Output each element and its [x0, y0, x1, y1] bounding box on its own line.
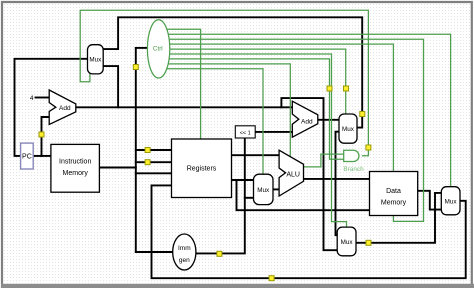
mux M3 ALU result / PC+4	[337, 227, 356, 256]
svg-text:Instruction: Instruction	[59, 158, 91, 165]
ALU	[279, 150, 303, 196]
mux M4 ALU source	[254, 174, 274, 204]
svg-text:Registers: Registers	[187, 166, 217, 173]
wire: Registers read data 1 to ALU input1	[232, 154, 280, 156]
adder Add2 branch target	[292, 101, 318, 137]
svg-text:Mux: Mux	[257, 187, 270, 194]
wire: Mux1 input1 riser to top wire to Mux2 output	[103, 17, 362, 127]
wire: Imm gen output riser to shift-left box	[196, 138, 245, 253]
junction on read reg2 wire	[145, 160, 150, 165]
svg-text:gen: gen	[179, 257, 190, 264]
svg-text:Ctrl: Ctrl	[153, 46, 163, 53]
wire: AND gate output PCSrc around top to Mux1 select	[80, 10, 368, 156]
junction on read reg1 wire	[145, 148, 150, 153]
wire: PC tap up to Add1 lower input	[42, 117, 50, 156]
junction on bottom writeback wire	[269, 276, 274, 281]
data memory	[370, 172, 418, 216]
wire: Add2 output to Mux2 input1	[318, 119, 339, 121]
adder Add1 PC+4	[49, 90, 76, 125]
wire: Add1 output PC+4 bus to Add2 input	[76, 106, 292, 108]
wire: Mux1 output to PC (feedback loop)	[15, 59, 88, 156]
immediate generator ellipse	[173, 234, 196, 270]
wire: read data 2 drop to Data Memory write data	[237, 180, 370, 210]
wire: instruction to Registers write reg	[136, 172, 172, 174]
svg-text:Add: Add	[301, 119, 313, 126]
wire: instruction to Registers read reg 1	[136, 149, 172, 151]
wire: instruction bus to Imm gen input	[136, 251, 173, 253]
wire: instruction bus vertical riser	[135, 48, 137, 252]
wire: Ctrl MemWrite to Data Memory top	[168, 44, 393, 171]
wire: Ctrl MemtoReg to Mux5 select	[167, 34, 450, 186]
wire: constant 4 into Add1 upper input	[36, 97, 50, 99]
wire: ALU result riser to Mux2 input2 and Mux3 input1	[336, 132, 340, 236]
svg-text:Add: Add	[59, 105, 71, 112]
wire: PC+4 bypass over Add2 down to Mux3 input2	[281, 98, 337, 250]
shift left 1 box	[235, 126, 255, 138]
svg-text:Imm: Imm	[178, 245, 191, 252]
svg-text:Branch: Branch	[343, 166, 364, 173]
junction on imm gen output	[217, 251, 222, 256]
mux M1 PC source	[88, 45, 104, 74]
wire: Data Memory read data to Mux5 input2	[418, 191, 442, 210]
AND gate branch	[344, 150, 359, 161]
svg-text:Memory: Memory	[63, 170, 89, 177]
svg-text:<< 1: << 1	[240, 130, 251, 136]
svg-text:Mux: Mux	[342, 126, 355, 133]
junction on branch control riser	[327, 86, 332, 91]
svg-text:Mux: Mux	[341, 239, 354, 246]
wire: Mux1 input2 riser down to PC+4 bus	[103, 66, 118, 107]
mux M5 writeback	[441, 187, 460, 215]
wire: instruction to Registers read reg 2	[136, 161, 172, 163]
svg-text:Data: Data	[386, 188, 401, 195]
svg-text:Memory: Memory	[381, 200, 407, 207]
control unit Ctrl ellipse	[147, 20, 169, 78]
wire: immediate tap to Mux4 input2	[245, 197, 254, 199]
wire: instruction bus stub to Ctrl	[136, 47, 148, 49]
junction on instruction bus	[133, 65, 138, 70]
wire: Ctrl select to Mux3	[168, 54, 346, 227]
wire: Ctrl Branch signal to AND gate input2	[168, 59, 344, 159]
wire: ALU Zero output to AND gate input1	[304, 154, 344, 167]
wire: Ctrl RegWrite to Registers top	[166, 29, 200, 139]
bottom scrollbar bar	[1, 284, 474, 288]
junction on mux2 select riser	[344, 86, 349, 91]
svg-text:4: 4	[30, 95, 34, 102]
junction on PC tap riser	[39, 132, 44, 137]
register PC	[21, 143, 34, 169]
wire: PC output to Instruction Memory	[33, 155, 51, 157]
registers file	[172, 139, 232, 198]
wire: Ctrl ALUOp to ALU top	[167, 64, 290, 157]
junction on AND output riser	[366, 145, 371, 150]
svg-text:Mux: Mux	[445, 199, 458, 206]
svg-text:Mux: Mux	[89, 57, 102, 64]
svg-text:ALU: ALU	[286, 171, 300, 178]
wire: Ctrl select to Mux2	[168, 49, 345, 114]
junction on mux2 output riser	[360, 112, 365, 117]
svg-text:PC: PC	[22, 154, 32, 161]
wire: Ctrl ALUSrc to Mux4 select	[166, 69, 263, 174]
wire: Registers read data 2 to Mux4 input1	[232, 179, 254, 181]
instruction memory	[51, 144, 100, 192]
mux M2 branch target	[339, 114, 357, 143]
wire: Ctrl MemRead to Data Memory bottom	[168, 39, 424, 221]
wire: ALU result to Data Memory address	[304, 178, 370, 180]
wire: Mux5 output writeback along bottom to Registers write data	[152, 185, 466, 278]
junction on mux3 output wire	[366, 240, 371, 245]
wire: Mux3 output to Mux5 input1	[356, 193, 441, 243]
wire: Mux4 output to ALU input2	[273, 188, 279, 190]
wire: shift-left output to Add2 lower input	[255, 131, 292, 133]
wire: Instruction Memory output to instruction bus	[99, 167, 135, 169]
